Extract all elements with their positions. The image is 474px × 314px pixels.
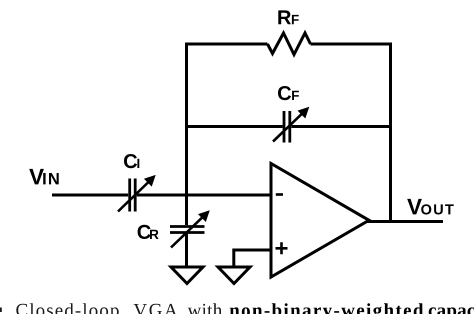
- wire: input from VIN to CI left plate: [52, 194, 128, 197]
- ground symbol below CR: [171, 267, 203, 284]
- wire: CR bottom plate down to ground: [185, 233, 188, 268]
- caption text: capacitors (bold, clipped): [429, 303, 474, 314]
- resistor RF zigzag: [268, 33, 311, 55]
- capacitor CF variable capacitor plates: [284, 111, 290, 143]
- label RF: [278, 10, 298, 24]
- label CF: [278, 86, 299, 100]
- wire: CI right plate to op-amp inverting input: [137, 194, 271, 197]
- node: inverting summing junction down-stem to CR: [185, 195, 188, 225]
- capacitor CR trimmer arrow: [171, 210, 210, 247]
- wire: top feedback branch left segment: [185, 43, 268, 46]
- wire: top feedback branch right segment: [311, 43, 393, 46]
- caption text: non-binary-weighted (bold): [230, 303, 424, 314]
- wire: feedback loop right vertical down to output node: [389, 43, 392, 223]
- label CR: [138, 225, 159, 239]
- caption figure number period fragment at left edge: [0, 308, 2, 313]
- capacitor CI variable capacitor plates: [130, 179, 136, 212]
- caption text: with: [188, 303, 222, 314]
- ground symbol at non-inverting input: [218, 267, 250, 284]
- label VOUT: [407, 199, 454, 215]
- wire: output from op-amp to VOUT terminal: [367, 220, 443, 223]
- op-amp U1 triangle: [271, 164, 369, 278]
- wire: CF branch left segment: [187, 125, 283, 128]
- capacitor CI trimmer arrow: [118, 175, 156, 212]
- capacitor CR variable capacitor plates: [170, 227, 205, 233]
- wire: op-amp non-inverting input to ground stem: [234, 250, 271, 267]
- caption text: VGA: [134, 304, 178, 314]
- caption text: Closed-loop: [16, 303, 118, 314]
- op-amp non-inverting input plus sign: [276, 242, 288, 254]
- wire: feedback loop left vertical from top branch down to inverting node: [185, 44, 188, 225]
- capacitor CF trimmer arrow: [273, 107, 309, 142]
- op-amp inverting input minus sign: [276, 193, 283, 196]
- wire: CF branch right segment: [291, 125, 390, 128]
- label VIN: [29, 169, 59, 185]
- label CI: [124, 154, 139, 168]
